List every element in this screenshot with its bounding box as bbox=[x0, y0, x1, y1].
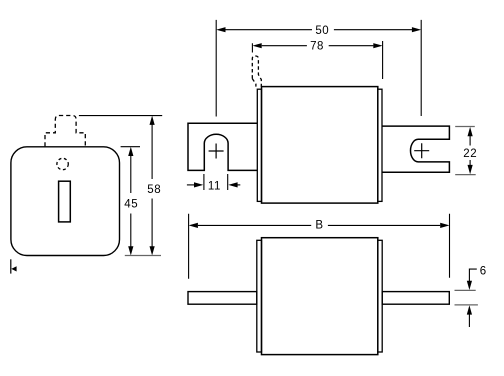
top view body bbox=[262, 87, 378, 204]
svg-text:22: 22 bbox=[463, 148, 477, 160]
dimension 50 line bbox=[226, 29, 413, 31]
dimension 50 arrows bbox=[216, 27, 225, 32]
dimension 11 right arrow bbox=[237, 184, 241, 186]
top view right end cap bbox=[378, 89, 382, 201]
right terminal center mark bbox=[414, 143, 429, 158]
striker indicator (top view, dashed) bbox=[252, 56, 261, 87]
dimension 6 upper arrow with jog bbox=[469, 269, 476, 281]
bottom view left end cap bbox=[257, 240, 262, 352]
svg-text:6: 6 bbox=[480, 265, 487, 277]
svg-text:50: 50 bbox=[315, 25, 329, 37]
shared bottom extension bar bbox=[125, 255, 161, 257]
svg-text:B: B bbox=[315, 219, 323, 231]
left terminal center mark bbox=[209, 144, 224, 159]
dimension 45 top bar bbox=[121, 146, 140, 148]
dimension 22 line bbox=[469, 136, 471, 167]
svg-text:58: 58 bbox=[147, 184, 161, 196]
label slot rectangle bbox=[59, 181, 71, 222]
dimension 58 arrows bbox=[150, 116, 155, 125]
dimension 45 line bbox=[130, 152, 132, 251]
dimension 45 arrows bbox=[128, 147, 133, 156]
left blade (bottom view) bbox=[188, 292, 257, 305]
dimension 58 top bar bbox=[79, 115, 162, 117]
indicator window circle (dashed) bbox=[57, 158, 68, 169]
dimension 78 arrows bbox=[252, 43, 261, 48]
right blade terminal (top view) bbox=[382, 126, 450, 172]
dimension 78 line bbox=[262, 45, 374, 47]
dimension 78 extension lines bbox=[252, 41, 382, 79]
front view body bbox=[11, 147, 120, 256]
dimension 50 extension lines bbox=[216, 20, 421, 117]
bottom-left arrowhead bbox=[11, 266, 16, 271]
svg-text:45: 45 bbox=[124, 198, 138, 210]
bottom view body bbox=[262, 238, 378, 355]
dimension B arrows bbox=[189, 223, 198, 228]
left blade terminal (top view) bbox=[188, 123, 257, 170]
dimension 11 extension ticks bbox=[204, 174, 228, 190]
dimension B line bbox=[198, 224, 440, 226]
dimension 22 bars bbox=[455, 127, 476, 175]
top view left end cap bbox=[257, 89, 261, 201]
svg-text:11: 11 bbox=[208, 181, 221, 193]
svg-text:78: 78 bbox=[310, 41, 324, 53]
right blade (bottom view) bbox=[382, 292, 449, 305]
dimension B extension lines bbox=[189, 214, 450, 279]
striker indicator (front view, dashed) bbox=[45, 116, 85, 147]
dimension 6 lower arrow bbox=[468, 314, 470, 327]
bottom view right end cap bbox=[378, 240, 382, 352]
dimension 58 line bbox=[151, 121, 153, 251]
dimension 22 arrows bbox=[468, 127, 473, 136]
dimension 11 left arrow bbox=[187, 184, 196, 186]
dimension 6 bars bbox=[455, 290, 478, 305]
bottom-left tick bbox=[10, 259, 12, 273]
